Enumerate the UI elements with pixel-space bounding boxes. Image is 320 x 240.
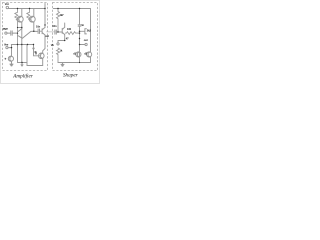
svg-text:tr: tr (35, 52, 37, 56)
svg-text:out: out (84, 38, 88, 42)
svg-text:out: out (45, 34, 49, 38)
svg-text:Vcc: Vcc (5, 2, 10, 6)
svg-text:2k2: 2k2 (87, 29, 92, 33)
svg-text:10n: 10n (36, 25, 41, 29)
svg-text:10n: 10n (52, 24, 57, 28)
svg-text:Vee: Vee (4, 43, 9, 47)
svg-text:100: 100 (67, 27, 72, 31)
svg-text:tr: tr (5, 56, 7, 60)
svg-text:4k7: 4k7 (60, 13, 65, 17)
svg-text:Vb: Vb (51, 43, 55, 47)
svg-text:Amplifier: Amplifier (12, 73, 34, 80)
svg-text:Shaper: Shaper (63, 73, 79, 79)
svg-text:PMT: PMT (3, 27, 9, 31)
